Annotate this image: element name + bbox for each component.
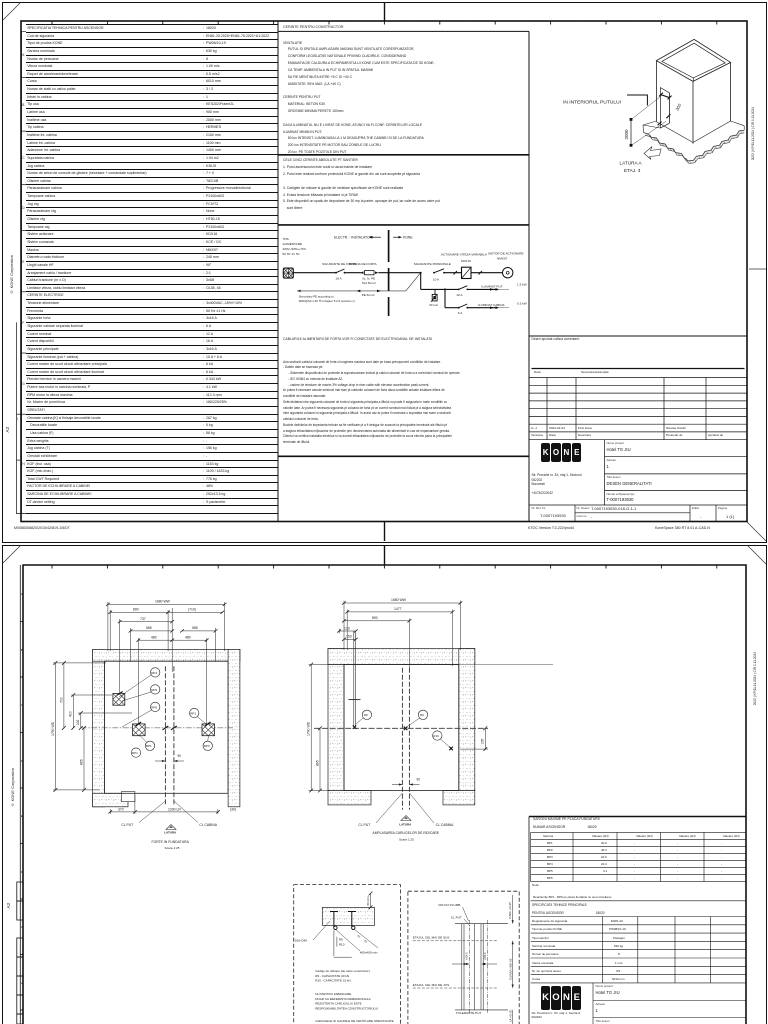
zone ticks top sheet2	[52, 565, 717, 569]
revision table grid	[529, 378, 747, 440]
wall top	[93, 649, 240, 661]
circle R9 mid	[408, 710, 428, 726]
boundary dashed separator	[388, 230, 390, 316]
bottom floor line	[455, 1009, 508, 1011]
inner frame sheet 2	[23, 565, 746, 1024]
shaft top face outer rim	[656, 39, 730, 81]
wall top p2	[328, 649, 475, 665]
circle RP1 right	[190, 708, 207, 724]
dim 1477 p2	[345, 610, 454, 667]
right margin vertical text sheet1	[751, 107, 755, 160]
mid arrows	[452, 963, 497, 965]
svg-text:H: H	[21, 981, 23, 985]
svg-text:ACTIONARE VITEZA VARIABILA: ACTIONARE VITEZA VARIABILA	[441, 253, 488, 257]
left dim 400	[71, 693, 112, 730]
svg-text:6 A: 6 A	[458, 311, 463, 315]
etajul sus label + dashed line	[413, 936, 497, 941]
sarcini header texts	[533, 817, 600, 821]
label KONE side	[393, 236, 413, 240]
svg-text:400V~50%+/-5%: 400V~50%+/-5%	[283, 247, 307, 251]
KONE logo sheet2	[541, 986, 582, 1010]
door dim 300 line and label	[669, 93, 682, 123]
plumb centerline right	[487, 920, 489, 1013]
wall left	[93, 649, 105, 806]
cele cinci text block	[283, 157, 440, 212]
label IN INTERIORUL PUTULUI	[563, 95, 647, 106]
specification table sheet1	[26, 24, 278, 514]
paragraphs block	[283, 360, 461, 446]
CL PUT label	[121, 801, 165, 827]
svg-text:ILUMINAT CABINA: ILUMINAT CABINA	[478, 303, 505, 307]
fuse sigurante de forta 16A	[335, 269, 345, 281]
centerline horizontal	[81, 727, 233, 729]
KONE logo sheet1	[541, 443, 582, 462]
hook anchor right	[449, 747, 453, 751]
svg-text:A: A	[21, 592, 23, 596]
revision row data	[531, 426, 537, 430]
left dim 1790 WD	[53, 661, 106, 792]
bottom dim 1200 LR	[135, 809, 220, 814]
svg-text:30 mA: 30 mA	[429, 303, 439, 307]
svg-text:MOTOR DE ACTIONARE: MOTOR DE ACTIONARE	[488, 251, 523, 255]
circle R9 left	[356, 710, 372, 724]
junction node	[420, 272, 422, 274]
wall bottom-right stub p2	[443, 791, 475, 805]
right dim V ARF	[508, 895, 514, 924]
circle RP5	[122, 685, 160, 701]
CL PUT label p2	[358, 793, 402, 827]
svg-text:C: C	[21, 703, 24, 707]
branch iluminat cabina	[444, 288, 527, 315]
left margin vertical text sheet2: copyright	[10, 768, 15, 807]
rotated 45 labels	[356, 934, 368, 944]
dim 1680 WW	[106, 602, 227, 651]
svg-text:2000: 2000	[624, 129, 629, 140]
svg-text:PE 6mm²: PE 6mm²	[362, 293, 375, 297]
dim 1680 WW p2	[342, 601, 462, 651]
left margin A3 label sheet1	[5, 427, 10, 433]
dim 153 p2	[342, 638, 358, 641]
sarcini table grid	[531, 833, 746, 882]
bottom strip fields sheet1	[532, 506, 546, 510]
inner frame sheet 1	[21, 21, 747, 522]
caption FORTE IN FUNDATURA	[152, 840, 190, 850]
hook anchor mid	[404, 727, 408, 731]
dim 585 / 585	[129, 628, 218, 662]
drive KDX16 box	[441, 253, 488, 279]
left dim 700	[62, 661, 66, 730]
svg-text:G: G	[21, 925, 24, 929]
branch iluminat put wire	[421, 283, 527, 297]
footer konespace	[655, 526, 710, 530]
CL CABINA label p2	[409, 793, 454, 827]
supply source TNS text	[283, 237, 307, 256]
circle RP1 lower-left	[131, 748, 140, 757]
coil bobina de forta with arrows	[349, 262, 378, 275]
svg-text:ETAJ. 3: ETAJ. 3	[624, 168, 641, 173]
svg-text:ILUMINAT PUT: ILUMINAT PUT	[481, 285, 502, 289]
right margin vertical text sheet2	[753, 652, 757, 705]
text extra line cut	[315, 1019, 394, 1023]
sigurante principale switch 10A	[414, 262, 451, 282]
corner cut TR sheet2	[747, 545, 766, 564]
corner cut TL sheet2	[3, 545, 21, 563]
pit inner outline p2	[344, 665, 459, 791]
label ELECTR. - INSTALATOR	[334, 236, 381, 240]
svg-text:TNS: TNS	[283, 237, 289, 241]
left margin vertical text sheet1: copyright	[9, 255, 14, 294]
plumb centerline left	[468, 920, 470, 1013]
LATURA A marker	[164, 825, 177, 835]
heading CERINTE PENTRU CONSTRUCTOR	[283, 25, 343, 29]
dim 80 min	[369, 892, 373, 910]
address block sheet1	[532, 473, 582, 496]
svg-text:16 A: 16 A	[336, 277, 343, 281]
sheet 1 outer border	[2, 2, 767, 543]
RCD 30mA	[429, 289, 439, 307]
left dim 865 p2	[318, 726, 322, 792]
heading band line	[278, 30, 529, 32]
detail box 1 dashed border	[294, 885, 401, 1024]
viewing plane sliver	[632, 95, 667, 145]
wire fuse to coil	[345, 272, 362, 274]
label fir du plumb	[439, 903, 469, 921]
wall left p2	[328, 649, 344, 791]
svg-text:SMAQ/S4.1.20 TN chapter 5.2.6: SMAQ/S4.1.20 TN chapter 5.2.6 sections c…	[299, 299, 355, 303]
anchor box B2	[133, 724, 146, 736]
vertical divider table/middle	[277, 21, 279, 522]
title block lower grid	[529, 440, 747, 522]
slab broken front edge band	[644, 130, 745, 163]
label cl put d2	[451, 915, 470, 926]
etajul jos label + dashed line	[413, 983, 497, 988]
approval underline	[532, 368, 745, 370]
revision header row	[531, 433, 543, 437]
fold mark bottom center (between sheets)	[384, 522, 386, 541]
svg-text:10 A: 10 A	[433, 277, 440, 281]
svg-text:F: F	[21, 870, 23, 874]
right dim CURSA	[509, 941, 514, 988]
direction arrow outline	[644, 147, 661, 160]
fold mark top center	[384, 2, 386, 21]
hoist hook line	[349, 631, 361, 729]
centerline CL PUT vertical	[164, 666, 166, 805]
dim 890 p2	[342, 618, 411, 668]
label sigurante de forta	[322, 262, 357, 266]
spec2 outline	[531, 901, 746, 1024]
title block top line	[529, 335, 747, 337]
svg-text:Secondary PE according to: Secondary PE according to	[299, 295, 334, 299]
tolerante put label	[456, 1011, 482, 1015]
vertical divider middle/right	[528, 31, 530, 521]
fold mark top center sheet2	[384, 545, 386, 565]
left dim 102	[78, 711, 132, 730]
plumb line bundle right	[481, 924, 483, 1010]
dim 90 p2	[392, 778, 420, 786]
left margin A3 label sheet2	[6, 903, 11, 909]
corner cut TL	[3, 2, 21, 20]
left dim 1790 WD p2	[309, 663, 554, 793]
bottom dim 370	[108, 795, 137, 814]
circle RP3	[203, 736, 212, 751]
dim 90 between centerlines	[155, 754, 184, 762]
anchor box B3	[202, 724, 215, 736]
right dim 235 p2	[460, 726, 488, 751]
door opening on front-left face	[660, 88, 669, 129]
svg-text:ALIMENTARE: ALIMENTARE	[283, 242, 303, 246]
data / semnatura labels	[534, 370, 541, 374]
svg-text:SIGURANTE PRINCIPALE: SIGURANTE PRINCIPALE	[414, 262, 451, 266]
shaft top face inner rim	[662, 43, 725, 81]
bottom dim (30)	[230, 807, 236, 811]
svg-text:KDX16: KDX16	[461, 259, 471, 263]
supply meter crosshatch box	[283, 268, 293, 278]
zone column left sheet2	[20, 565, 23, 1024]
floor line top	[455, 923, 508, 925]
svg-text:ELECTR. - INSTALATOR: ELECTR. - INSTALATOR	[334, 236, 373, 240]
wall bottom-left stub p2	[328, 791, 371, 805]
CL CABINA label	[174, 801, 218, 827]
address sheet2	[532, 1011, 581, 1020]
sheet 2 outer border	[2, 545, 767, 1024]
hline under cele cinci block	[278, 224, 529, 226]
wall right	[228, 649, 240, 806]
detail box 2 dashed border	[408, 891, 519, 1024]
bold ticks at anchor boxes	[117, 692, 211, 730]
LATURA A marker p2	[399, 816, 412, 827]
branch down from junction	[420, 273, 422, 290]
circle RP6	[122, 702, 160, 727]
centerline CL PUT vertical p2	[401, 668, 403, 810]
foundation slab top surface	[643, 121, 744, 133]
wire coil to junction	[378, 272, 420, 274]
text carlige	[315, 969, 370, 983]
spec table group bracket column	[0, 0, 768, 543]
dim 133 p2	[337, 629, 357, 634]
svg-text:BOBINA DE FORTA: BOBINA DE FORTA	[349, 262, 378, 266]
svg-text:50 Hz ±1 Hz: 50 Hz ±1 Hz	[283, 252, 300, 256]
project fields sheet2	[596, 984, 613, 988]
wall right p2	[459, 649, 475, 791]
wire drive to motor	[471, 271, 503, 275]
label LATURA A / ETAJ. 3	[620, 161, 643, 174]
pit inner outline	[104, 661, 228, 793]
svg-text:E: E	[21, 814, 23, 818]
conductor size label	[362, 277, 376, 285]
svg-text:KONE: KONE	[403, 236, 413, 240]
caption AMPLASAREA	[373, 831, 440, 841]
sheet 1 corner diagonal top-left	[0, 0, 768, 543]
svg-text:1.5 kW: 1.5 kW	[517, 283, 527, 287]
left margin ruler boxes sheet2	[0, 544, 768, 1024]
footer doc number sheet1	[14, 526, 70, 530]
cablurile line	[283, 337, 432, 341]
dim 890 / (710)	[108, 610, 224, 651]
wire to drive	[444, 271, 462, 275]
zone ticks top	[52, 21, 717, 25]
PE note	[299, 295, 355, 304]
dim 2000	[624, 118, 632, 147]
slab section with hooks	[322, 907, 374, 929]
project fields sheet1	[607, 441, 624, 445]
svg-text:5x2.5mm²: 5x2.5mm²	[362, 281, 376, 285]
fold tick right margin sheet1	[749, 268, 766, 270]
circle BP1	[140, 736, 155, 751]
shaft vertical edges	[656, 61, 730, 144]
text nu pentru fabricare	[315, 992, 378, 1011]
left dim 865	[82, 726, 86, 792]
dim 737	[118, 619, 174, 693]
ventilatie text block	[283, 40, 435, 156]
svg-text:10 A: 10 A	[456, 293, 463, 297]
anchor box B1	[113, 693, 125, 705]
leader 400x400	[336, 929, 378, 954]
label D16-D46	[295, 921, 330, 943]
small dims under hooks	[334, 930, 352, 957]
hline under paragraphs	[278, 455, 529, 457]
centerline CL CABINA vertical	[173, 666, 175, 805]
door dim 300 bold marks	[658, 93, 672, 126]
circle RP4	[119, 668, 160, 697]
plumb line bundle left	[462, 924, 475, 1010]
corner cut BR	[747, 522, 766, 541]
hline under ventilatie block	[278, 154, 529, 156]
PE conductor with diagonal	[297, 273, 421, 297]
svg-text:0.3 kW: 0.3 kW	[517, 301, 527, 305]
rotated +50/-0 labels	[465, 952, 488, 960]
centerline CL CABINA vertical p2	[408, 668, 410, 810]
footer ktoc version	[528, 526, 574, 530]
main wire supply to fuse	[293, 272, 336, 274]
bottom right rotated label	[509, 1010, 513, 1024]
shaft base edges on slab	[656, 121, 730, 143]
wall bottom-left stub	[93, 792, 135, 807]
label R9 R10 bracket	[337, 937, 345, 947]
svg-text:LATURA A: LATURA A	[620, 161, 643, 166]
svg-text:D: D	[21, 759, 24, 763]
centerline horizontal p2	[314, 727, 488, 729]
motor NMX07	[488, 251, 523, 278]
dim 480 / 480	[136, 608, 208, 724]
title block 2 outline	[529, 817, 746, 1024]
circle R10	[433, 731, 450, 747]
svg-text:IN INTERIORUL PUTULUI: IN INTERIORUL PUTULUI	[563, 100, 621, 106]
svg-text:300: 300	[674, 102, 682, 111]
svg-text:B: B	[21, 648, 23, 652]
svg-text:NMX07: NMX07	[497, 256, 508, 260]
